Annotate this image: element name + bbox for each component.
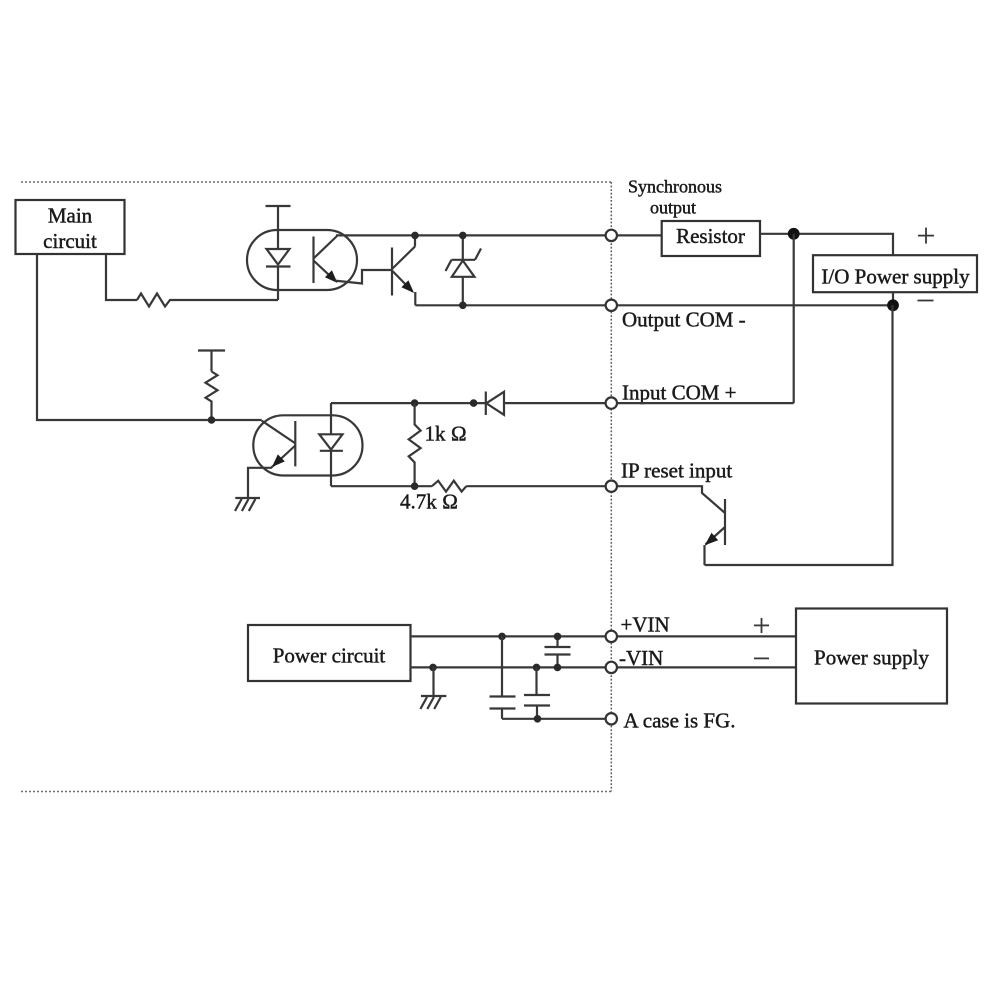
wire -VIN to ground [432,667,434,696]
junction node C3 on FG [534,716,541,723]
svg-text:Power circuit: Power circuit [273,644,386,668]
junction node 1k top [411,400,418,407]
wire -VIN rail [411,666,606,668]
wire terminal to Resistor block [617,234,662,236]
capacitor C2 (+VIN to FG) [499,633,506,640]
antenna T for LED1 anode [266,205,291,207]
wire LED2 cathode to 4.7k resistor [331,485,432,487]
wire Main circuit left output down to input network [37,254,262,420]
svg-text:Main: Main [48,203,93,227]
dashed boundary bottom [21,791,613,793]
dashed boundary top [21,181,611,183]
wire Output COM - rail [415,304,893,306]
junction node pull-up/input wire [208,417,215,424]
svg-text:I/O Power supply: I/O Power supply [821,265,970,289]
optocoupler PC1 body [247,230,357,290]
svg-text:Resistor: Resistor [676,224,745,248]
wire -VIN terminal to Power supply [617,666,796,668]
terminal: IP reset input [606,481,617,492]
junction nodes C1 [554,633,561,640]
wire Input COM+ terminal to diode [504,402,606,404]
plus sign (I/O supply) [918,235,934,237]
ground (power circuit) [421,695,447,697]
terminal: Input COM + [606,397,617,408]
wire +VIN rail [411,635,606,637]
wire Input COM+ terminal to corner at resistor node [617,402,794,404]
svg-text:IP reset input: IP reset input [621,459,732,483]
optocoupler PC2 body [253,415,362,475]
phototransistor PT1 [312,237,314,284]
transistor Q2 [724,499,726,545]
wire diode to LED2 anode [331,402,486,404]
junction node (solid) minus rail [887,299,899,311]
junction node (solid) resistor output [788,228,800,240]
LED1 photodiode [267,249,290,265]
junction node 1k bottom [411,483,418,490]
terminal: synchronous output [606,230,617,241]
phototransistor PT2 [294,421,296,466]
svg-text:+VIN: +VIN [621,613,670,637]
resistor pull-up vertical [206,372,218,421]
Power supply block [796,609,947,704]
diode D1 (input COM+) [485,392,487,416]
I/O Power supply block [813,255,977,292]
junction node PT1 collector / Q1 [412,232,419,239]
dashed boundary right (terminal strip) [610,182,612,792]
ground (PT2 emitter) [235,497,260,499]
wire +VIN terminal to Power supply [617,635,796,637]
junction node ground on -VIN [430,664,437,671]
wire node down to Input COM+ rail [793,234,795,403]
wire 4.7k to IP reset terminal [466,485,605,487]
resistor 4.7k horizontal [432,481,466,492]
svg-text:Synchronous: Synchronous [628,177,722,197]
zener diode ZD1 [462,235,464,259]
terminal: FG case [606,713,617,724]
minus sign (power supply) [754,657,769,659]
terminal: -VIN [606,662,617,673]
wire minus rail down and left to Q2 emitter [705,305,893,565]
wire Resistor to I/O power supply [760,234,893,255]
capacitor C3 (-VIN to FG) [533,664,540,671]
svg-text:Output COM -: Output COM - [622,308,746,332]
resistor 1k vertical [409,403,421,486]
wire Main circuit right output down to series resistor [106,254,137,300]
plus sign (power supply) [754,624,769,626]
Main circuit block [16,200,125,254]
svg-text:circuit: circuit [43,229,97,253]
resistor R series (Main circuit to LED1) [137,294,278,307]
wire FG rail [502,718,606,720]
svg-text:A case is FG.: A case is FG. [624,709,736,733]
transistor Q1 [391,248,393,296]
power antenna T (pull-up supply) [198,349,225,351]
capacitor C1 (between +VIN and -VIN) [556,636,558,647]
wire PT2 emitter to ground [248,467,273,499]
Resistor block [662,221,760,256]
wire IP reset terminal to Q2 [617,486,725,513]
junction node before diode [470,400,477,407]
svg-text:output: output [650,198,696,218]
minus sign (I/O supply) [918,300,934,302]
svg-text:Input COM +: Input COM + [622,381,737,405]
junction node zener top [460,232,467,239]
svg-text:4.7k Ω: 4.7k Ω [400,490,458,514]
wire PT1 collector to synchronous output terminal [336,234,606,236]
svg-text:Power supply: Power supply [814,646,929,670]
LED2 [330,403,332,434]
wire PT1 emitter step to Q1 base [335,270,392,284]
junction node zener bottom [460,302,467,309]
wire I/O supply bottom to minus node [892,292,894,305]
svg-text:1k Ω: 1k Ω [425,422,467,446]
terminal: +VIN [606,631,617,642]
power circuit block [248,625,411,681]
terminal: Output COM - [606,300,617,311]
